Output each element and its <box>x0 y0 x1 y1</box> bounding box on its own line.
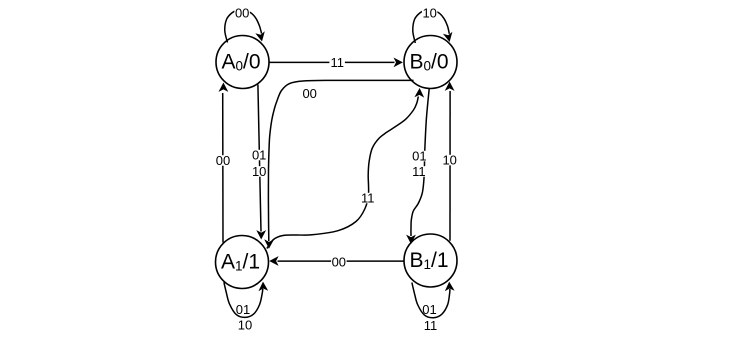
arrowhead A0->A1 <box>256 230 266 239</box>
arrowhead loop A0 <box>255 31 264 41</box>
svg-text:10: 10 <box>422 6 436 21</box>
label 10 A0->A1 <box>251 166 267 177</box>
svg-text:10: 10 <box>252 164 266 179</box>
svg-text:00: 00 <box>302 86 316 101</box>
edge A0->A1 line <box>258 85 261 232</box>
self-loop B1 <box>412 283 450 318</box>
arrowhead A1->B0 <box>414 88 424 98</box>
self-loop A0 <box>225 10 262 43</box>
arrowhead loop B0 <box>443 32 453 42</box>
label 10 loop B0 <box>422 8 438 18</box>
arrowhead B1->A1 <box>269 256 278 266</box>
self-loop B0 <box>413 10 450 43</box>
svg-text:00: 00 <box>216 153 230 168</box>
svg-text:01: 01 <box>252 148 266 163</box>
arrowhead B0->B1 <box>406 235 416 244</box>
state B1/1 circle <box>404 234 457 287</box>
self-loop A1 <box>224 282 263 317</box>
state B0/0 circle <box>404 36 457 89</box>
arrowhead loop A1 <box>258 282 268 292</box>
state A0/0 circle <box>216 36 269 89</box>
edge A1->B0 S-curve 11 <box>267 97 419 249</box>
svg-text:11: 11 <box>424 318 438 333</box>
svg-text:00: 00 <box>332 255 346 270</box>
svg-text:11: 11 <box>412 164 426 179</box>
svg-text:00: 00 <box>235 5 249 20</box>
svg-text:01: 01 <box>412 149 426 164</box>
label 01 A0->A1 <box>251 150 267 161</box>
label 01 B0->B1 <box>412 151 428 162</box>
arrowhead B1->B0 <box>445 82 455 91</box>
arrowhead A1->A0 <box>219 83 229 92</box>
svg-text:10: 10 <box>238 318 252 333</box>
edge B0->A1 curve 00 <box>268 80 413 241</box>
edge B1->A1 line <box>278 260 405 262</box>
state A1/1 circle <box>216 236 269 289</box>
label 00 loop A0 <box>234 8 250 19</box>
label 11 B0->B1 <box>411 166 427 177</box>
label 11 A1->B0 <box>360 193 376 204</box>
label 00 B1->A1 <box>331 257 347 268</box>
edge A0->B0 line <box>269 61 395 63</box>
arrowhead loop B1 <box>445 282 455 292</box>
svg-text:01: 01 <box>422 302 436 317</box>
label 10 B1->B0 <box>442 155 458 166</box>
svg-text:11: 11 <box>330 55 344 70</box>
svg-text:11: 11 <box>361 191 375 206</box>
arrowhead A0->B0 <box>394 58 403 68</box>
edge B0->B1 curve <box>411 89 429 236</box>
label 11 A0->B0 <box>329 57 345 68</box>
label 00 A1->A0 <box>215 155 231 166</box>
edge B1->B0 line <box>449 91 451 241</box>
arrowhead B0->A1 <box>264 239 274 249</box>
svg-text:01: 01 <box>236 302 250 317</box>
edge A1->A0 line <box>222 93 224 243</box>
svg-text:10: 10 <box>442 153 456 168</box>
